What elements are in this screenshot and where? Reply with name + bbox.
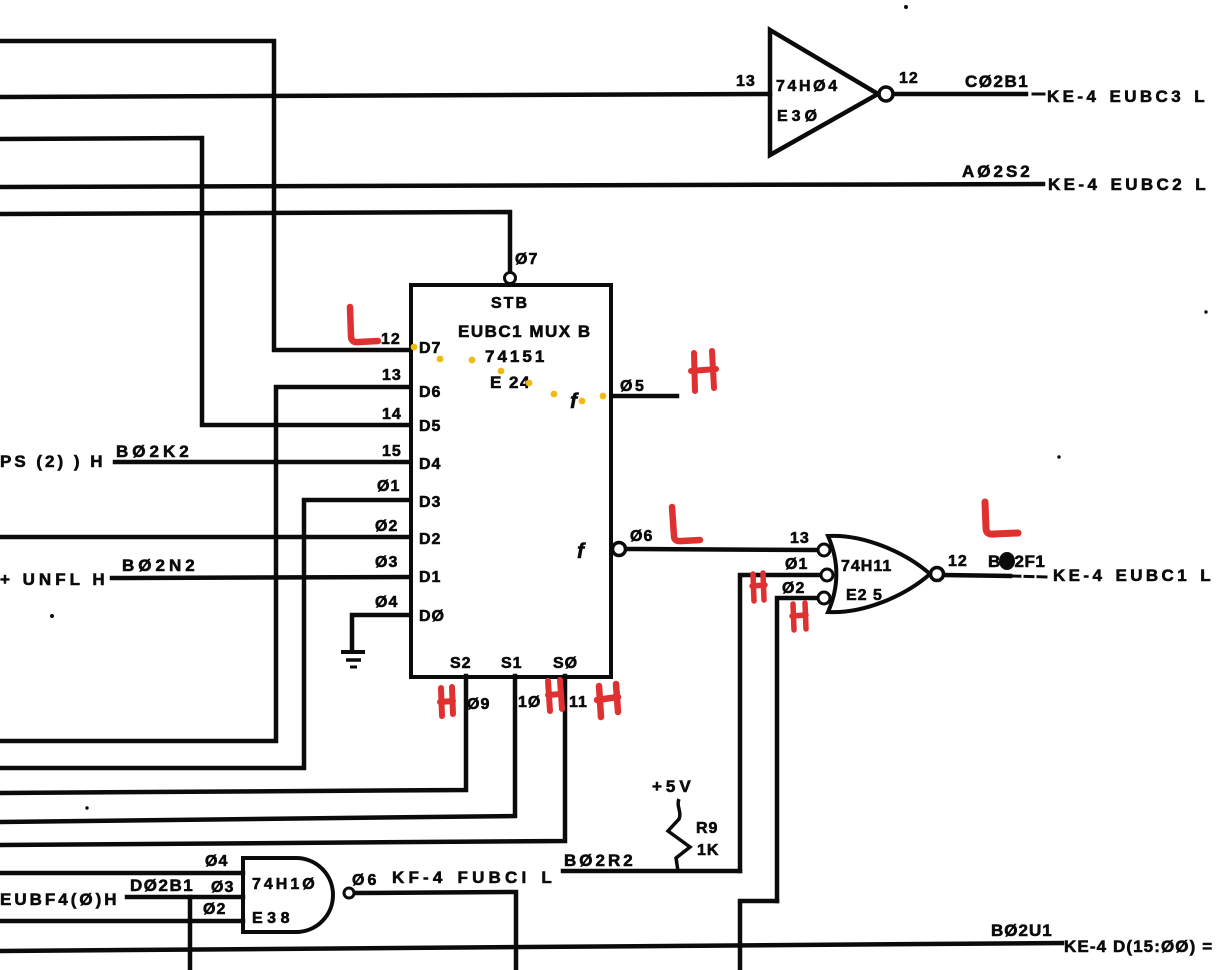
- wire gate E38 input DØ2B1: [127, 895, 243, 900]
- wire gate E38 input bottom: [0, 919, 243, 924]
- E25 input bubble pin 1: [821, 569, 833, 581]
- svg-text:Ø4: Ø4: [375, 594, 398, 611]
- wire net D2: [0, 535, 410, 540]
- nand-gate E38 74H1Ø body: [243, 858, 333, 932]
- ink blob on BØ2F1: [999, 552, 1015, 570]
- svg-text:Ø1: Ø1: [785, 556, 808, 573]
- svg-text:S1: S1: [501, 655, 523, 672]
- wire BØ2K2 to D4: [115, 460, 410, 465]
- red annotation H at Ø9: [440, 687, 453, 716]
- svg-text:D6: D6: [419, 384, 441, 401]
- wire gate E38 input Ø4: [0, 871, 243, 876]
- svg-text:KE-4 EUBC1 L: KE-4 EUBC1 L: [1053, 566, 1214, 585]
- svg-text:KE-4 EUBC3 L: KE-4 EUBC3 L: [1047, 87, 1208, 106]
- speck: [1204, 310, 1207, 313]
- svg-text:D2: D2: [419, 531, 441, 548]
- svg-text:BØ2K2: BØ2K2: [116, 442, 193, 461]
- svg-text:1K: 1K: [697, 842, 719, 859]
- wire BØ2U1 full width: [0, 943, 1062, 951]
- svg-text:R9: R9: [696, 820, 718, 837]
- svg-text:14: 14: [382, 406, 402, 423]
- svg-text:D3: D3: [419, 494, 441, 511]
- speck: [904, 5, 908, 9]
- red annotation L at Ø6: [672, 507, 700, 541]
- red annotation L at BØ2F1: [985, 502, 1018, 534]
- svg-text:Ø3: Ø3: [375, 554, 398, 571]
- svg-text:+ UNFL H: + UNFL H: [0, 570, 109, 589]
- wire net D6: [0, 387, 410, 741]
- svg-text:EUBC1 MUX B: EUBC1 MUX B: [458, 322, 592, 341]
- wire net D7 from top-left: [0, 41, 410, 350]
- inverter E30 74HØ4: [770, 30, 878, 155]
- svg-text:13: 13: [790, 530, 810, 547]
- wire BØ2R2 with resistor: [563, 869, 740, 874]
- strobe bubble pin 7: [505, 273, 516, 284]
- resistor R9: [668, 799, 690, 871]
- svg-text:DØ: DØ: [419, 608, 445, 625]
- svg-text:Ø1: Ø1: [377, 478, 400, 495]
- svg-text:Ø3: Ø3: [211, 879, 234, 896]
- svg-text:E 24: E 24: [490, 373, 531, 392]
- wire gate E25 pin Ø1: [740, 575, 820, 871]
- E25 output bubble: [931, 568, 944, 581]
- svg-text:D4: D4: [419, 456, 441, 473]
- wire net S0: [0, 676, 565, 845]
- red annotation H at 11: [597, 684, 618, 717]
- svg-text:Ø6: Ø6: [630, 528, 653, 545]
- svg-text:74H11: 74H11: [841, 558, 892, 575]
- mux U E24 74151 body: [411, 285, 611, 677]
- wire EUBC2 full width: [0, 184, 1043, 187]
- svg-text:+5V: +5V: [652, 777, 695, 796]
- speck: [50, 614, 54, 618]
- svg-text:Ø6: Ø6: [352, 872, 379, 889]
- svg-text:D7: D7: [419, 340, 441, 357]
- wire E38 output: [354, 892, 516, 970]
- wire net S1: [0, 676, 515, 822]
- wire Ø6 output to gate pin 13: [626, 549, 817, 550]
- svg-text:Ø4: Ø4: [205, 853, 228, 870]
- svg-text:E2 5: E2 5: [846, 587, 883, 604]
- svg-text:AØ2S2: AØ2S2: [962, 162, 1033, 181]
- red annotation H at Ø5: [691, 351, 716, 391]
- wire DØ2B1 vertical off page: [188, 897, 193, 970]
- wire E25 output BØ2F1: [944, 575, 1010, 576]
- wire net S2: [0, 676, 466, 793]
- svg-text:11: 11: [569, 694, 588, 711]
- ground: [341, 652, 365, 667]
- speck: [1057, 455, 1060, 458]
- svg-text:13: 13: [736, 73, 756, 90]
- svg-text:Ø7: Ø7: [515, 251, 538, 268]
- red annotation H at E25 pin 1: [752, 573, 765, 601]
- wire gate E25 pin Ø2: [777, 598, 817, 901]
- svg-text:E38: E38: [252, 910, 294, 927]
- svg-text:Ø2: Ø2: [375, 518, 398, 535]
- wire net STB strobe: [0, 212, 510, 272]
- svg-text:EUBF4(Ø)H: EUBF4(Ø)H: [0, 890, 120, 909]
- svg-text:Ø2: Ø2: [782, 580, 805, 597]
- wire Ø2 net jog down off page: [740, 901, 777, 970]
- wire to inverter pin 13: [0, 94, 770, 97]
- svg-text:15: 15: [382, 443, 402, 460]
- svg-text:SØ: SØ: [553, 655, 578, 672]
- wire net D5: [0, 138, 410, 425]
- red annotation H at E25 pin 2: [792, 603, 806, 630]
- svg-text:CØ2B1: CØ2B1: [965, 72, 1029, 91]
- svg-text:BØ2F1: BØ2F1: [988, 552, 1045, 571]
- svg-text:STB: STB: [491, 295, 529, 312]
- svg-text:E3Ø: E3Ø: [777, 108, 821, 125]
- red annotation L at D7: [350, 307, 378, 342]
- svg-text:74HØ4: 74HØ4: [776, 78, 840, 95]
- svg-text:74151: 74151: [485, 347, 547, 366]
- svg-text:Ø5: Ø5: [620, 378, 646, 395]
- svg-text:PS (2) ) H: PS (2) ) H: [0, 452, 106, 471]
- E38 output bubble: [344, 888, 354, 898]
- svg-text:BØ2U1: BØ2U1: [991, 921, 1053, 940]
- red annotation H at 1Ø: [548, 680, 562, 711]
- svg-text:S2: S2: [450, 655, 472, 672]
- svg-text:74H1Ø: 74H1Ø: [252, 876, 318, 893]
- wire E25 output dashes: [1012, 576, 1048, 577]
- svg-text:1Ø: 1Ø: [518, 694, 541, 711]
- svg-text:13: 13: [382, 367, 402, 384]
- wire BØ2N2 to D1: [112, 577, 410, 578]
- svg-text:Ø2: Ø2: [203, 901, 226, 918]
- svg-text:12: 12: [381, 331, 401, 348]
- wire net D3: [0, 500, 410, 768]
- svg-text:12: 12: [948, 553, 968, 570]
- speck: [85, 806, 88, 809]
- svg-text:BØ2R2: BØ2R2: [564, 851, 636, 870]
- svg-text:KF-4 FUBCI L: KF-4 FUBCI L: [392, 868, 556, 887]
- svg-text:DØ2B1: DØ2B1: [130, 876, 194, 895]
- wire Ø5 output: [612, 394, 677, 399]
- svg-text:D1: D1: [419, 569, 441, 586]
- svg-text:BØ2N2: BØ2N2: [122, 556, 199, 575]
- inverter output bubble: [879, 87, 893, 101]
- svg-text:KE-4 D(15:ØØ) =: KE-4 D(15:ØØ) =: [1064, 937, 1213, 956]
- svg-text:Ø9: Ø9: [467, 696, 490, 713]
- svg-text:KE-4 EUBC2 L: KE-4 EUBC2 L: [1048, 175, 1209, 194]
- E25 input bubble pin 2: [818, 592, 830, 604]
- yellow dot trail: [411, 344, 607, 405]
- E25 input bubble pin 13: [818, 544, 830, 556]
- wire D0 to ground: [352, 615, 410, 651]
- and-gate E25 74H11 body: [828, 536, 930, 612]
- svg-text:12: 12: [899, 70, 919, 87]
- wire inverter output CØ2B1: [893, 92, 1026, 97]
- output bubble f pin 6: [613, 543, 626, 556]
- svg-text:D5: D5: [419, 418, 441, 435]
